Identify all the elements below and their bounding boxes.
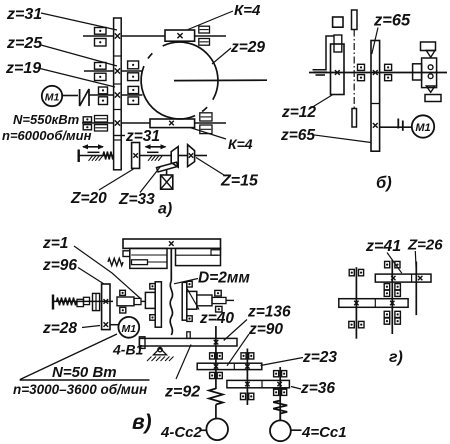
leader z=19 — [38, 68, 115, 87]
x gear z=65 upper — [373, 70, 378, 75]
wire row3 left — [89, 94, 114, 96]
bearing A below-right — [217, 372, 222, 378]
lever bar z=136 row — [139, 338, 237, 346]
leader z=136 — [224, 320, 247, 341]
bearing gL below-left — [349, 321, 355, 327]
dash to 4-Cc2 — [200, 429, 207, 431]
svg-text:z=65: z=65 — [373, 12, 411, 30]
wire after planet bottom — [195, 122, 226, 124]
support ground right — [147, 151, 159, 153]
x gear z=23 — [245, 364, 249, 368]
x on bar3 at shaft B — [245, 382, 249, 386]
bearing b mid upper — [358, 64, 365, 70]
output shaft wire left — [79, 155, 114, 157]
svg-text:z=40: z=40 — [199, 310, 234, 327]
leader z=23 — [261, 358, 304, 366]
right plate bearing bottom — [187, 316, 192, 322]
svg-text:б): б) — [376, 174, 392, 192]
x gear g lower-left — [354, 301, 358, 305]
geneva top pointer — [426, 51, 435, 58]
geneva left tab — [413, 64, 422, 80]
electromagnetic clutch box — [161, 175, 173, 189]
geneva top rect — [421, 42, 436, 51]
bearing row2 right upper — [128, 61, 139, 69]
left shaft wire v — [53, 300, 113, 302]
bearing B below-left — [241, 393, 246, 399]
bearing gM top-right — [395, 261, 400, 267]
right plate bearing top — [187, 281, 192, 287]
bearing C above-left — [274, 371, 279, 377]
bearing B below-right — [249, 393, 254, 399]
clutch circle 4-Cc2 — [206, 419, 228, 441]
bearing left spindle upper — [120, 290, 126, 295]
gear z=65 tall rect — [371, 41, 380, 152]
left yoke tongue — [132, 260, 148, 265]
row4 small rect pair left — [83, 117, 91, 122]
svg-text:z=65: z=65 — [280, 127, 315, 144]
leader z=65 top — [372, 28, 378, 55]
frame bracket b — [313, 36, 334, 70]
worm wheel block z=12 — [331, 44, 345, 95]
right spindle tip — [226, 299, 234, 301]
right spindle nose — [212, 297, 226, 303]
vertical worm axis dash-dot — [353, 30, 355, 109]
motor M1 (scheme a) — [42, 86, 62, 106]
left yoke block — [130, 248, 167, 268]
right yoke inner line — [176, 254, 219, 256]
clutch circle 4-Cc1 — [270, 420, 291, 441]
svg-text:N=550кВт: N=550кВт — [13, 112, 80, 127]
bearing gL above-right — [359, 269, 364, 275]
output shaft left end bar — [77, 150, 79, 163]
shaft B vertical — [246, 349, 248, 406]
left shaft end bar v — [52, 295, 54, 310]
gear bar z=41/z=26 — [375, 274, 431, 282]
dash to 4-Cc1 — [291, 429, 302, 431]
leader z=96 — [78, 268, 104, 285]
vertical worm shaft bottom rect — [352, 109, 357, 128]
planet gear K=4 box bottom — [150, 119, 195, 128]
leader z=28 — [82, 326, 100, 328]
bearing row1 left lower — [95, 39, 107, 47]
x gear z=90 — [214, 364, 218, 368]
bearing gM mid-left lower — [384, 290, 390, 296]
bearing gM low-right lower — [395, 318, 401, 324]
svg-text:Z=33: Z=33 — [118, 191, 155, 208]
x in planet box top — [177, 33, 182, 38]
z=65 divider — [371, 103, 380, 105]
gear z=20 wheel — [132, 143, 140, 169]
leader z=36 — [291, 387, 301, 390]
svg-text:в): в) — [132, 411, 152, 434]
right spindle body — [197, 295, 212, 306]
svg-text:z=90: z=90 — [248, 321, 283, 338]
x gear z=136 — [214, 340, 219, 345]
svg-text:а): а) — [158, 201, 172, 218]
shaft R g — [415, 262, 417, 316]
worm narrow rect on block — [334, 35, 342, 52]
gear z=31 wire left row1 — [83, 35, 114, 37]
bearing B above-left — [241, 353, 246, 359]
sun wire row3 right — [121, 94, 142, 96]
bearing gM mid-right lower — [395, 290, 401, 296]
top beam rect v — [123, 239, 221, 248]
svg-text:z=25: z=25 — [6, 35, 43, 52]
shaft L g — [355, 267, 357, 339]
x in planet box bottom — [169, 121, 174, 126]
pivot triangle — [153, 348, 166, 355]
output wire right — [195, 155, 207, 157]
lever stub — [187, 332, 190, 339]
lever left end — [139, 337, 145, 349]
ring gear z=29 circle — [141, 42, 218, 119]
shaft C vertical — [279, 367, 281, 421]
spring preload — [103, 152, 114, 160]
leader Z=20 — [99, 169, 134, 190]
spring C — [273, 401, 287, 414]
ring gear center line — [174, 79, 267, 81]
bearing row3 right upper — [128, 86, 139, 93]
shaft I segment lines — [114, 55, 122, 57]
left spindle body — [117, 297, 134, 306]
left spindle nose — [134, 298, 141, 304]
bearing row1 left upper — [95, 28, 107, 35]
right yoke step — [211, 250, 221, 255]
svg-text:z=31: z=31 — [6, 6, 42, 23]
svg-text:n=6000об/мин: n=6000об/мин — [2, 128, 92, 143]
svg-text:М1: М1 — [415, 122, 430, 134]
bearing row2 right lower — [128, 73, 139, 81]
bearing gM mid-left upper — [384, 284, 390, 290]
bearing B above-right — [249, 353, 254, 359]
svg-text:n=3000–3600 об/мин: n=3000–3600 об/мин — [13, 382, 147, 397]
planet gear K=4 box top — [165, 30, 195, 41]
rod to 4-Cc2 — [215, 405, 217, 419]
main shaft b — [309, 72, 447, 74]
right chuck block — [187, 291, 197, 309]
planet carrier wire row1 right — [121, 35, 165, 37]
hatched bearing top right lower — [199, 39, 210, 46]
mesh x row3 — [115, 92, 120, 97]
left tab v — [123, 251, 130, 257]
leader D=2mm — [174, 279, 198, 284]
x in block z=12 — [335, 70, 340, 75]
x gear z=26 — [418, 276, 422, 280]
bearing gL above-left — [349, 269, 354, 275]
shift arrow left — [83, 146, 103, 148]
rod to 4-Cc1 — [279, 414, 281, 421]
svg-text:4=Сс1: 4=Сс1 — [301, 424, 347, 441]
bearing gL below-right — [359, 321, 365, 327]
svg-text:z=41: z=41 — [365, 238, 401, 255]
svg-text:z=92: z=92 — [164, 384, 200, 401]
bearing right spindle lower — [216, 306, 222, 312]
svg-text:z=23: z=23 — [302, 349, 337, 366]
svg-text:г): г) — [389, 349, 403, 366]
leader z=29 — [212, 48, 231, 64]
leader Z=33 — [140, 167, 161, 193]
x on top beam — [169, 241, 174, 246]
shaft M1 to coupling — [63, 95, 79, 97]
left plate bearing top — [150, 284, 155, 289]
step block v — [77, 299, 84, 306]
svg-text:z=136: z=136 — [247, 304, 291, 321]
row4 hatched pair — [95, 116, 108, 123]
vertical worm shaft top rect — [352, 10, 358, 30]
bearing C above-right — [282, 371, 287, 377]
leader Z=15 — [196, 158, 226, 177]
mesh x row2 — [115, 68, 120, 73]
hatched bearing top right upper — [199, 26, 210, 33]
row4 left wire — [82, 122, 114, 124]
geneva bottom rect — [425, 95, 441, 102]
x gear z=65 lower — [373, 123, 378, 128]
bearing gM mid-right upper — [395, 284, 401, 290]
wire D=2mm wavy — [170, 281, 172, 335]
bevel shaft middle — [178, 155, 187, 157]
geneva pin lower — [428, 74, 433, 79]
svg-text:z=29: z=29 — [230, 39, 265, 56]
wheel z=96 rect — [102, 284, 110, 330]
leader K=4 top — [188, 11, 233, 30]
svg-text:z=28: z=28 — [42, 320, 77, 337]
svg-text:М1: М1 — [122, 323, 137, 335]
sliding coupling — [80, 89, 89, 106]
left clamp plate — [155, 282, 161, 327]
leader Z=26 — [415, 251, 416, 273]
leader z=41 — [387, 253, 402, 274]
svg-text:z=36: z=36 — [300, 380, 335, 397]
input shaft I (vertical) — [114, 18, 122, 170]
wire after planet top — [195, 35, 226, 37]
bearing row3 left lower — [99, 97, 108, 105]
mesh x row1 — [115, 33, 120, 38]
hatched bearing bottom right upper — [200, 113, 212, 121]
gear bar lower g — [339, 299, 408, 308]
x bevel z=15 — [189, 153, 193, 157]
left spindle tip — [141, 300, 145, 302]
right clamp plate — [182, 282, 187, 320]
bearing C below-right — [282, 389, 287, 395]
left chuck block — [145, 292, 155, 308]
bearing b right lower — [385, 75, 392, 81]
leader z=31 — [41, 13, 117, 30]
pivot hatch — [147, 357, 174, 362]
left plate bearing bottom — [150, 315, 155, 321]
x on wheel z=96 mid — [104, 299, 109, 304]
frame ground bars — [314, 71, 328, 73]
right yoke block — [176, 248, 221, 265]
shaft to motor b — [380, 126, 412, 128]
bearing A below-left — [210, 372, 215, 378]
svg-text:М1: М1 — [45, 92, 60, 104]
svg-text:z=19: z=19 — [5, 60, 41, 77]
svg-text:z=1: z=1 — [42, 235, 68, 252]
spring A — [209, 389, 223, 405]
gear bar z=23/z=36 row — [227, 380, 290, 387]
bearing row2 left lower — [95, 73, 107, 80]
leader z=92 — [176, 345, 191, 380]
x gear z=36 — [277, 382, 281, 386]
bearing left spindle lower — [120, 307, 126, 313]
bevel gear z=15 — [188, 145, 195, 167]
bearing right spindle upper — [215, 290, 221, 296]
left yoke inner line 2 — [148, 261, 168, 263]
shift arrow right — [146, 146, 166, 148]
geneva body — [422, 58, 437, 88]
pivot circle — [158, 347, 162, 351]
bearing A above-left — [210, 353, 215, 359]
leader z=40 — [187, 289, 199, 310]
shaft A vertical — [215, 326, 217, 389]
stem to clutch — [166, 170, 168, 176]
worm z=1 thread — [57, 298, 77, 306]
bearing b right upper — [385, 64, 392, 70]
bearing gM low-right upper — [395, 311, 401, 317]
svg-text:Z=20: Z=20 — [70, 190, 107, 207]
geneva pin upper — [428, 65, 433, 70]
leader z=90 — [227, 334, 249, 366]
bearing row3 left upper — [99, 87, 108, 94]
leader z=65 bottom — [313, 135, 371, 143]
x gear g lower-right — [390, 301, 394, 305]
mesh x row4 — [115, 120, 120, 125]
leader z=25 — [41, 45, 117, 66]
svg-text:Z=15: Z=15 — [220, 173, 259, 190]
bevel bracket — [157, 162, 178, 172]
svg-text:D=2мм: D=2мм — [198, 270, 250, 287]
leader z=1 — [74, 246, 141, 299]
svg-text:Z=26: Z=26 — [407, 237, 443, 254]
svg-text:z=12: z=12 — [281, 104, 316, 121]
leader to motor group — [20, 334, 117, 380]
leader K=4 bottom — [190, 128, 226, 140]
motor wire v — [110, 324, 119, 326]
motor M1 (scheme b) — [412, 115, 434, 137]
svg-text:К=4: К=4 — [228, 136, 253, 152]
support ground left — [88, 151, 100, 153]
bearing b mid lower — [358, 75, 365, 81]
bevel gear z=33 — [171, 147, 178, 168]
hatched bearing bottom right lower — [200, 125, 212, 134]
gear bar z=90/z=23 row — [197, 363, 262, 369]
output wire mid — [140, 155, 172, 157]
svg-text:N=50 Вт: N=50 Вт — [52, 364, 117, 381]
yoke spring — [108, 258, 123, 265]
coupling bars b — [397, 119, 399, 129]
sun wire row2 right — [121, 70, 142, 72]
svg-text:4-Сс2: 4-Сс2 — [160, 424, 203, 441]
svg-text:К=4: К=4 — [234, 2, 261, 19]
underline N=50 — [20, 379, 150, 381]
left yoke inner line — [131, 254, 167, 256]
shaft end square b — [333, 17, 343, 27]
collar v — [93, 293, 100, 310]
bearing row2 left upper — [95, 63, 107, 70]
svg-text:z=96: z=96 — [42, 257, 77, 274]
geneva bottom pointer — [426, 86, 435, 92]
x gear z=20 — [133, 153, 138, 158]
bearing A above-right — [217, 353, 222, 359]
gear z=25 wire left row2 — [84, 70, 114, 72]
center stem — [170, 248, 172, 281]
x on wheel z=96 low — [104, 322, 109, 327]
svg-text:z=31: z=31 — [125, 128, 160, 145]
row4 right wire — [121, 122, 150, 124]
shaft M g — [391, 260, 393, 334]
dash to z=31 lower — [114, 135, 126, 137]
bearing row3 right lower — [128, 97, 139, 105]
bearing gM top-left — [385, 261, 390, 267]
leader z=12 — [309, 95, 333, 110]
bearing C below-left — [274, 389, 279, 395]
bearing gM low-left upper — [384, 311, 390, 317]
motor M1 (scheme v) — [118, 317, 139, 338]
x gear z=41 — [391, 276, 395, 280]
bearing gM low-left lower — [384, 318, 390, 324]
